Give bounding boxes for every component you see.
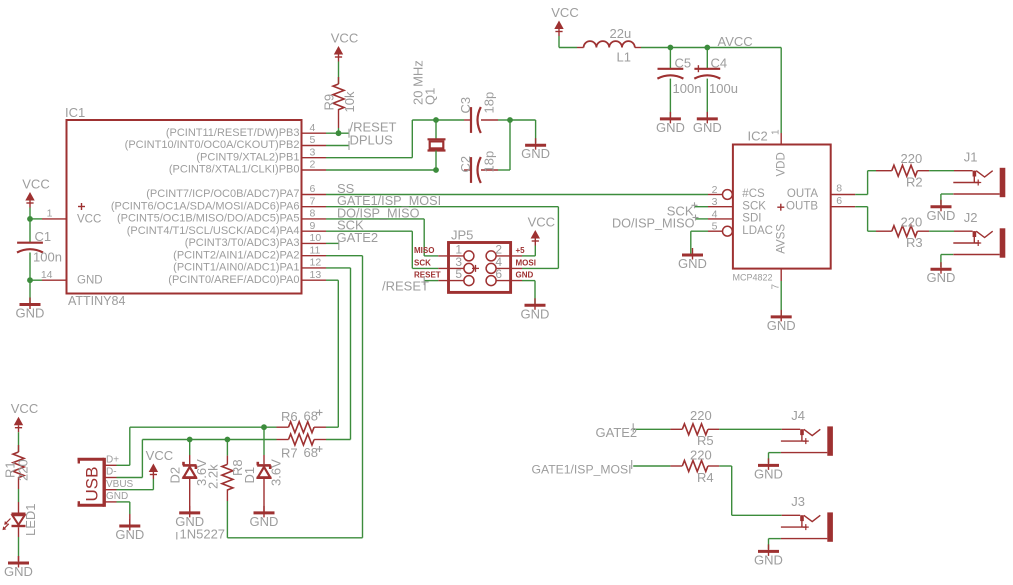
wire GATE1 (R4) — [633, 465, 670, 467]
svg-text:GND: GND — [115, 527, 144, 542]
ground (J1) — [927, 200, 956, 223]
svg-text:C1: C1 — [35, 229, 52, 244]
capacitor C1 — [17, 229, 62, 265]
wire — [780, 48, 782, 145]
wire PA0 net — [326, 280, 338, 427]
ground (LDAC) — [678, 248, 707, 271]
svg-text:D2: D2 — [168, 467, 183, 484]
resistor R2 220 — [876, 151, 929, 190]
svg-text:GND: GND — [678, 256, 707, 271]
svg-text:220: 220 — [16, 459, 31, 481]
wire — [263, 427, 265, 464]
ground (C4) — [693, 112, 722, 135]
label GATE2 — [337, 230, 379, 250]
svg-text:IC2: IC2 — [748, 129, 768, 144]
svg-text:VCC: VCC — [77, 213, 101, 225]
wire — [29, 219, 31, 243]
power symbol VCC (USB VBUS) — [146, 448, 173, 479]
svg-text:GND: GND — [77, 275, 103, 287]
svg-text:220: 220 — [901, 151, 923, 166]
svg-text:DPLUS: DPLUS — [350, 132, 394, 147]
svg-text:18p: 18p — [482, 151, 497, 173]
wire SCK (IC2) — [695, 206, 708, 208]
svg-text:R4: R4 — [697, 470, 714, 485]
wire — [498, 120, 510, 170]
svg-text:3.6V: 3.6V — [268, 459, 283, 486]
node junction (C1/pin14/GND) — [27, 277, 33, 283]
svg-text:VDD: VDD — [776, 152, 788, 176]
svg-text:D1: D1 — [242, 467, 257, 484]
wire — [226, 440, 228, 465]
wire DO/ISP_MISO — [326, 219, 438, 256]
svg-text:L1: L1 — [617, 50, 631, 65]
ground (JP5) — [521, 298, 550, 321]
svg-text:IC1: IC1 — [65, 105, 85, 120]
wire (jack tip lead) — [954, 170, 973, 172]
svg-text:220: 220 — [901, 214, 923, 229]
svg-text:(PCINT2/AIN1/ADC2)PA2: (PCINT2/AIN1/ADC2)PA2 — [173, 249, 299, 261]
svg-text:6: 6 — [310, 183, 316, 195]
wire OUTA — [855, 171, 876, 195]
node junction — [507, 117, 513, 123]
svg-text:22u: 22u — [610, 26, 632, 41]
wire — [522, 281, 535, 305]
svg-text:R5: R5 — [697, 433, 714, 448]
svg-text:/RESET: /RESET — [382, 279, 429, 294]
wire — [18, 432, 20, 452]
node junction — [668, 45, 674, 51]
power symbol VCC (C1 rail) — [22, 177, 49, 208]
svg-text:1N5227: 1N5227 — [180, 527, 226, 542]
svg-text:18p: 18p — [482, 92, 497, 114]
svg-text:GND: GND — [516, 271, 534, 280]
svg-text:R7: R7 — [281, 446, 298, 461]
svg-text:3: 3 — [310, 146, 316, 158]
wire GATE2 — [326, 242, 339, 244]
wire — [498, 119, 510, 121]
node junction (D+/D1) — [261, 424, 267, 430]
svg-text:7: 7 — [310, 195, 316, 207]
wire — [719, 428, 781, 430]
svg-text:10: 10 — [310, 232, 322, 244]
power symbol VCC (AVCC rail) — [551, 5, 578, 36]
svg-text:DO/ISP_MISO: DO/ISP_MISO — [612, 217, 695, 231]
svg-text:VCC: VCC — [146, 448, 173, 463]
node junction (D-/R8) — [225, 437, 231, 443]
svg-text:J2: J2 — [964, 210, 978, 225]
svg-text:+5: +5 — [516, 246, 526, 255]
svg-text:10k: 10k — [342, 91, 357, 112]
wire XTAL2 — [326, 120, 412, 158]
wire — [412, 119, 436, 121]
svg-text:5: 5 — [712, 221, 718, 233]
resistor R4 220 — [670, 448, 719, 485]
svg-text:(PCINT1/AIN0/ADC1)PA1: (PCINT1/AIN0/ADC1)PA1 — [173, 262, 299, 274]
wire — [18, 489, 20, 514]
svg-text:5: 5 — [310, 134, 316, 146]
resistor R3 220 — [876, 214, 929, 250]
node junction — [704, 45, 710, 51]
label GATE1/ISP_MOSI — [337, 194, 441, 208]
wire PA1 net — [326, 268, 351, 440]
connector J1 (audio jack) — [953, 150, 1005, 198]
label SS — [337, 181, 355, 196]
wire /RESET — [326, 132, 349, 134]
svg-text:SCK: SCK — [414, 259, 431, 268]
svg-text:(PCINT0/AREF/ADC0)PA0: (PCINT0/AREF/ADC0)PA0 — [168, 274, 299, 286]
wire SCK — [326, 231, 438, 268]
wire — [706, 79, 708, 118]
svg-text:C5: C5 — [675, 55, 692, 70]
label DO/ISP_MISO (IC2) — [612, 215, 699, 231]
wire — [436, 120, 464, 139]
wire (jack tip lead) — [782, 514, 801, 516]
ground (J2) — [927, 262, 956, 285]
svg-text:VCC: VCC — [528, 215, 555, 230]
power symbol VCC (JP5) — [528, 215, 555, 246]
resistor R8 2.2k — [206, 459, 246, 501]
wire — [522, 246, 535, 256]
svg-text:9: 9 — [310, 220, 316, 232]
node junction (VCC/pin1/C1) — [27, 216, 33, 222]
label SCK (IC2) — [667, 202, 698, 218]
svg-text:6: 6 — [495, 267, 502, 281]
label AVCC — [718, 34, 753, 49]
node junction (D-/D2) — [187, 437, 193, 443]
svg-text:100u: 100u — [709, 81, 738, 96]
svg-text:R3: R3 — [906, 235, 923, 250]
inductor L1 22u — [577, 26, 641, 65]
svg-text:C4: C4 — [711, 55, 728, 70]
svg-text:GND: GND — [250, 514, 279, 529]
diode D1 zener 3.6V — [242, 459, 283, 486]
svg-text:2: 2 — [310, 159, 316, 171]
svg-text:SCK: SCK — [742, 200, 766, 212]
wire (jack tip lead) — [954, 230, 973, 232]
svg-text:OUTA: OUTA — [787, 188, 818, 200]
power symbol VCC (LED) — [11, 401, 38, 432]
LED LED1 — [3, 503, 39, 536]
resistor R9 10k — [322, 77, 358, 128]
wire — [929, 170, 954, 172]
label /RESET — [349, 120, 397, 138]
svg-text:11: 11 — [310, 244, 321, 256]
wire AVCC — [641, 47, 781, 49]
svg-text:GND: GND — [767, 318, 796, 333]
wire — [338, 128, 340, 133]
svg-text:(PCINT11/RESET/DW)PB3: (PCINT11/RESET/DW)PB3 — [166, 127, 300, 139]
wire — [559, 36, 577, 48]
wire (J3 sleeve) — [769, 539, 781, 550]
svg-text:(PCINT9/XTAL2)PB1: (PCINT9/XTAL2)PB1 — [196, 151, 299, 163]
ground (J3) — [754, 544, 783, 567]
wire USB GND — [117, 502, 130, 525]
svg-text:100n: 100n — [673, 81, 702, 96]
svg-text:100n: 100n — [33, 250, 62, 265]
wire GATE1/ISP_MOSI — [326, 207, 558, 269]
wire VBUS — [117, 479, 154, 490]
svg-text:OUTB: OUTB — [786, 200, 818, 212]
ground (crystal) — [521, 138, 550, 161]
svg-text:GATE1/ISP_MOSI: GATE1/ISP_MOSI — [531, 463, 631, 477]
label DO/ISP_MISO — [337, 206, 420, 220]
wire /RESET (JP5) — [424, 280, 438, 282]
svg-text:R6: R6 — [281, 409, 298, 424]
wire — [669, 48, 671, 69]
wire D+ net — [117, 427, 277, 465]
wire DO/ISP_MISO (IC2) — [695, 218, 708, 220]
svg-text:7: 7 — [771, 284, 782, 290]
svg-text:VCC: VCC — [11, 401, 38, 416]
svg-text:6: 6 — [836, 195, 842, 207]
svg-text:(PCINT4/T1/SCL/USCK/ADC4)PA4: (PCINT4/T1/SCL/USCK/ADC4)PA4 — [127, 225, 300, 237]
wire — [929, 230, 954, 232]
connector J2 (audio jack) — [953, 210, 1005, 258]
wire SS — [326, 194, 708, 196]
svg-text:VCC: VCC — [22, 177, 49, 192]
resistor R6 68 — [277, 409, 327, 433]
ground — [16, 298, 45, 321]
svg-text:2.2k: 2.2k — [206, 464, 221, 489]
wire — [18, 527, 20, 561]
svg-text:#CS: #CS — [742, 188, 765, 200]
connector X1 USB — [78, 454, 134, 506]
svg-text:220: 220 — [690, 408, 712, 423]
svg-text:GND: GND — [4, 564, 33, 579]
svg-text:GND: GND — [521, 306, 550, 321]
node junction — [433, 117, 439, 123]
resistor R5 220 — [670, 408, 719, 448]
label SCK — [337, 218, 364, 233]
ground (IC2 AVSS) — [767, 310, 796, 333]
wire — [435, 151, 437, 171]
svg-text:Q1: Q1 — [423, 88, 438, 105]
wire GATE2 (R5) — [633, 428, 670, 430]
wire OUTB — [855, 207, 876, 232]
ground (LED) — [4, 556, 33, 579]
wire — [189, 440, 191, 465]
label /RESET (JP5) — [382, 276, 429, 293]
svg-text:J4: J4 — [791, 408, 805, 423]
wire — [189, 478, 191, 512]
wire — [510, 120, 536, 143]
wire (J2 sleeve) — [941, 255, 953, 268]
svg-text:(PCINT5/OC1B/MISO/DO/ADC5)PA5: (PCINT5/OC1B/MISO/DO/ADC5)PA5 — [117, 213, 300, 225]
wire — [338, 62, 340, 85]
wire AVSS-GND — [780, 269, 782, 316]
svg-text:220: 220 — [690, 448, 712, 463]
svg-text:D-: D- — [106, 467, 117, 478]
svg-text:12: 12 — [310, 257, 322, 269]
node junction (RESET net) — [336, 130, 342, 136]
svg-text:D+: D+ — [106, 454, 119, 465]
wire LDAC-GND — [691, 231, 708, 254]
wire — [30, 208, 42, 219]
svg-text:VBUS: VBUS — [106, 479, 134, 490]
label DPLUS — [349, 132, 393, 150]
svg-text:4: 4 — [712, 208, 718, 220]
svg-text:68: 68 — [304, 445, 318, 460]
svg-text:2: 2 — [712, 184, 718, 196]
wire PA2 net — [227, 256, 362, 538]
wire — [719, 466, 781, 515]
svg-text:GATE2: GATE2 — [337, 230, 379, 245]
svg-text:J3: J3 — [791, 494, 805, 509]
svg-text:(PCINT3/T0/ADC3)PA3: (PCINT3/T0/ADC3)PA3 — [185, 237, 300, 249]
svg-text:(PCINT8/XTAL1/CLKI)PB0: (PCINT8/XTAL1/CLKI)PB0 — [169, 164, 300, 176]
wire (J1 sleeve) — [941, 194, 953, 205]
svg-text:VCC: VCC — [331, 31, 358, 46]
svg-text:GND: GND — [16, 306, 45, 321]
capacitor C2 18p — [458, 151, 498, 183]
svg-text:SDI: SDI — [742, 213, 761, 225]
wire (jack tip lead) — [782, 428, 801, 430]
svg-text:AVCC: AVCC — [718, 34, 753, 49]
svg-text:GND: GND — [927, 208, 956, 223]
connector J4 (audio jack) — [781, 408, 833, 456]
crystal Q1 20 MHz — [411, 60, 446, 150]
ground (C5) — [656, 112, 685, 135]
svg-text:(PCINT10/INT0/OC0A/CKOUT)PB2: (PCINT10/INT0/OC0A/CKOUT)PB2 — [125, 139, 300, 151]
wire — [669, 79, 671, 118]
svg-text:JP5: JP5 — [451, 227, 473, 242]
svg-text:5: 5 — [455, 267, 462, 281]
svg-text:GND: GND — [693, 120, 722, 135]
svg-text:C3: C3 — [458, 97, 473, 114]
label 1N5227 — [177, 527, 225, 542]
svg-text:GND: GND — [754, 552, 783, 567]
svg-text:(PCINT7/ICP/OC0B/ADC7)PA7: (PCINT7/ICP/OC0B/ADC7)PA7 — [146, 188, 299, 200]
wire — [706, 48, 708, 69]
svg-text:J1: J1 — [964, 150, 978, 165]
svg-text:(PCINT6/OC1A/SDA/MOSI/ADC6)PA6: (PCINT6/OC1A/SDA/MOSI/ADC6)PA6 — [111, 200, 300, 212]
svg-text:MCP4822: MCP4822 — [733, 272, 773, 282]
wire — [263, 478, 265, 512]
svg-text:AVSS: AVSS — [776, 224, 788, 254]
resistor R1 220 — [3, 445, 31, 489]
svg-text:GND: GND — [656, 120, 685, 135]
svg-text:C2: C2 — [458, 156, 473, 173]
svg-text:VCC: VCC — [551, 5, 578, 20]
connector J3 (audio jack) — [781, 494, 833, 542]
svg-text:4: 4 — [310, 122, 316, 134]
svg-text:MISO: MISO — [414, 246, 434, 255]
svg-text:ATTINY84: ATTINY84 — [68, 294, 125, 308]
svg-text:LDAC: LDAC — [742, 225, 773, 237]
ground (USB) — [115, 519, 144, 542]
node junction — [433, 167, 439, 173]
svg-text:1: 1 — [47, 208, 53, 220]
resistor R7 68 — [277, 434, 327, 461]
wire — [30, 280, 42, 303]
svg-text:GND: GND — [521, 146, 550, 161]
diode D2 zener 3.6V — [168, 459, 210, 486]
svg-text:68: 68 — [304, 409, 318, 424]
capacitor C4 100u — [694, 55, 738, 96]
wire DPLUS — [326, 145, 349, 147]
wire D- net — [117, 440, 277, 478]
ground (D2) — [175, 506, 204, 529]
IC U-IC2 MCP4822 DAC — [708, 129, 855, 290]
svg-text:GATE2: GATE2 — [596, 425, 638, 440]
svg-text:1: 1 — [771, 129, 782, 135]
capacitor C5 100n — [657, 55, 701, 96]
svg-text:GND: GND — [927, 270, 956, 285]
svg-text:3: 3 — [712, 196, 718, 208]
capacitor C3 18p — [458, 92, 498, 133]
svg-text:14: 14 — [41, 269, 53, 281]
wire (J4 sleeve) — [769, 453, 781, 464]
connector JP5 (pin header 2x3) — [414, 227, 536, 292]
svg-text:R9: R9 — [322, 94, 337, 111]
ground (D1) — [250, 506, 279, 529]
label GATE1/ISP_MOSI (R4) — [531, 460, 631, 477]
svg-text:LED1: LED1 — [23, 503, 38, 536]
svg-text:8: 8 — [310, 208, 316, 220]
label GATE2 (R5) — [596, 423, 638, 440]
wire — [29, 253, 31, 281]
IC U-IC1 ATTINY84 — [41, 105, 326, 308]
power symbol VCC (R9) — [331, 31, 358, 62]
svg-text:GND: GND — [106, 491, 128, 502]
svg-text:USB: USB — [83, 467, 102, 502]
wire XTAL1 — [326, 169, 436, 171]
ground (J4) — [754, 458, 783, 481]
svg-text:R2: R2 — [906, 175, 923, 190]
svg-text:8: 8 — [836, 183, 842, 195]
svg-text:GND: GND — [754, 466, 783, 481]
svg-text:13: 13 — [310, 269, 322, 281]
svg-text:MOSI: MOSI — [516, 259, 536, 268]
